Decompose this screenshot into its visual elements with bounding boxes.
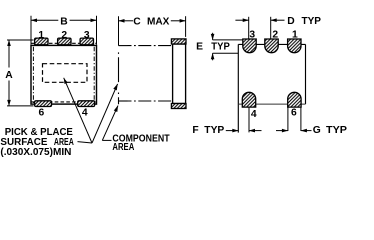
dimension E line bottom bbox=[212, 53, 214, 60]
svg-text:B: B bbox=[60, 16, 67, 27]
dimension B extension line left bbox=[30, 16, 32, 45]
svg-text:(.030X.075)MIN: (.030X.075)MIN bbox=[0, 147, 71, 158]
land pattern outline right edge bbox=[305, 44, 307, 104]
svg-text:C: C bbox=[133, 17, 141, 28]
dimension A arrow up bbox=[7, 40, 11, 46]
dimension C extension line right bbox=[185, 16, 187, 37]
dimension D arrow right bbox=[271, 18, 277, 22]
svg-text:A: A bbox=[5, 70, 13, 81]
dimension F arrow left bbox=[232, 129, 238, 133]
svg-text:F: F bbox=[192, 125, 198, 136]
svg-text:1: 1 bbox=[292, 29, 298, 40]
svg-text:4: 4 bbox=[82, 108, 88, 119]
dimension F line right bbox=[249, 130, 262, 132]
leader to side view surface bbox=[92, 84, 118, 143]
package body outline (front view) bbox=[31, 45, 97, 104]
pad 6 right extension line bbox=[300, 107, 302, 131]
dimension B line bbox=[31, 19, 97, 21]
hidden line right wrap bbox=[93, 47, 95, 103]
terminal 6 (hatched) bbox=[35, 101, 52, 107]
pad 3 (hatched) bbox=[243, 39, 256, 53]
dimension F arrow right bbox=[249, 129, 255, 133]
svg-text:D: D bbox=[287, 16, 294, 27]
pick and place surface area dashed rectangle bbox=[43, 64, 88, 83]
svg-text:2: 2 bbox=[272, 29, 278, 40]
svg-text:6: 6 bbox=[39, 108, 45, 119]
svg-text:TYP: TYP bbox=[204, 125, 224, 136]
land pattern outline top edge bbox=[238, 43, 305, 45]
terminal 3 (hatched) bbox=[80, 38, 93, 45]
leader to pick and place rectangle bbox=[64, 78, 92, 143]
leader arrowhead at side view surface bbox=[113, 84, 117, 91]
pad 1 (hatched) bbox=[288, 39, 301, 53]
dimension B arrow right bbox=[91, 19, 97, 23]
svg-text:1: 1 bbox=[38, 30, 44, 41]
component area phantom left edge (side view) bbox=[118, 52, 120, 104]
terminal 1 (hatched) bbox=[35, 38, 48, 45]
svg-text:TYP: TYP bbox=[326, 125, 347, 136]
leader tick from SURFACE AREA text bbox=[78, 142, 93, 143]
dimension D line left bbox=[235, 19, 248, 21]
dimension E arrow down bbox=[211, 34, 215, 40]
svg-text:3: 3 bbox=[249, 29, 255, 40]
leader to component area corner bbox=[102, 106, 118, 141]
dimension C line right part bbox=[171, 20, 186, 22]
dimension A extension line top bbox=[7, 39, 34, 41]
land pattern outline left edge bbox=[237, 44, 239, 132]
dimension G line right bbox=[301, 130, 312, 132]
dimension B arrow left bbox=[31, 19, 37, 23]
front view: hidden dashed line at top terminal level bbox=[32, 42, 97, 44]
hidden line left wrap bbox=[32, 47, 34, 103]
dimension E extension bottom bbox=[213, 52, 239, 54]
dimension A line bbox=[8, 40, 10, 106]
dimension B extension line right bbox=[96, 16, 98, 45]
pad 2 (hatched) bbox=[265, 39, 278, 53]
dimension A arrow down bbox=[7, 100, 11, 106]
svg-text:TYP: TYP bbox=[211, 41, 230, 52]
svg-text:4: 4 bbox=[251, 109, 257, 120]
pad 6 left extension line bbox=[287, 107, 289, 131]
dimension A extension line bottom bbox=[7, 105, 34, 107]
side view body outline bbox=[173, 44, 186, 104]
svg-text:MAX: MAX bbox=[147, 17, 170, 28]
side view top terminal (hatched) bbox=[171, 39, 186, 44]
dimension G arrow left bbox=[282, 129, 288, 133]
svg-text:2: 2 bbox=[61, 30, 67, 41]
component area phantom top edge bbox=[119, 45, 173, 47]
pad 3 extension line bbox=[248, 17, 250, 39]
land pattern outline bottom edge bbox=[238, 103, 305, 105]
leader arrowhead at pick and place rectangle bbox=[64, 78, 68, 84]
pad 4 (hatched) bbox=[242, 92, 255, 107]
svg-text:6: 6 bbox=[291, 107, 297, 118]
dimension D arrow left bbox=[243, 18, 249, 22]
front view: hidden dashed line at bottom terminal level bbox=[32, 101, 97, 103]
svg-text:3: 3 bbox=[84, 30, 90, 41]
dimension C line left part bbox=[119, 20, 134, 22]
component area phantom bottom edge bbox=[119, 100, 173, 102]
dimension C arrow left bbox=[118, 19, 124, 23]
side view bottom terminal (hatched) bbox=[171, 104, 186, 109]
dimension E extension top bbox=[213, 39, 243, 41]
dimension F line left bbox=[226, 130, 239, 132]
dimension C arrow right bbox=[180, 19, 186, 23]
svg-text:AREA: AREA bbox=[112, 142, 134, 153]
dimension C extension line left bbox=[118, 16, 120, 45]
dimension E line top bbox=[212, 33, 214, 40]
terminal 2 (hatched) bbox=[58, 38, 71, 45]
pad 6 (hatched) bbox=[288, 92, 301, 107]
dimension G arrow right bbox=[301, 129, 307, 133]
terminal 4 (hatched) bbox=[78, 101, 95, 107]
dimension D line right bbox=[271, 19, 285, 21]
svg-text:TYP: TYP bbox=[302, 16, 322, 27]
svg-text:E: E bbox=[196, 41, 203, 52]
dimension E arrow up bbox=[211, 53, 215, 59]
leader tick from COMPONENT AREA text bbox=[102, 139, 111, 141]
svg-text:G: G bbox=[313, 125, 321, 136]
leader arrowhead at component area bbox=[114, 105, 118, 112]
dimension G line left bbox=[276, 130, 288, 132]
pad 4 extension line bbox=[248, 107, 250, 132]
pad 2 extension line bbox=[270, 17, 272, 39]
